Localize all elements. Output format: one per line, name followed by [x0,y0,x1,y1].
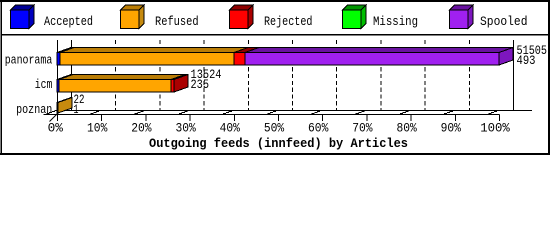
x-axis depth tick 90% [441,111,455,115]
gridline 50% (dashed, back plane) [292,40,294,110]
svg-text:80%: 80% [396,122,417,136]
bar panorama [57,48,513,66]
x-axis depth tick 50% [265,111,279,115]
x-axis depth tick 20% [132,111,146,115]
bar icm segment orange: front face [59,80,171,93]
x-axis depth tick 100% [486,111,500,115]
gridline 60% (dashed, back plane) [336,40,338,110]
svg-text:poznan: poznan [16,103,52,117]
svg-text:493: 493 [517,54,536,68]
x-axis tick 20% [145,115,147,122]
bar panorama segment red: top face [234,48,259,53]
outer border frame right [548,0,550,155]
x-axis front line [44,114,500,116]
svg-text:1: 1 [74,103,79,117]
svg-text:235: 235 [191,78,210,92]
x-axis depth tick 40% [220,111,234,115]
outer border frame left [1,0,2,155]
bar poznan segment orange: top face [57,98,72,103]
bar icm segment blue: top face [57,75,73,80]
gridline 90% (dashed, back plane) [468,40,470,110]
outer border frame top [0,0,550,2]
svg-text:0%: 0% [48,122,64,136]
x-axis tick 90% [454,115,456,122]
bar icm segment red: top face [171,75,188,80]
y-axis vertical line [57,40,59,121]
svg-text:icm: icm [35,78,53,92]
bar panorama segment orange: top face [60,48,248,53]
legend cube Missing [343,5,367,29]
legend cube Accepted [11,5,35,29]
x-axis origin depth diagonal [50,114,58,122]
svg-text:panorama: panorama [5,54,53,68]
svg-text:Missing: Missing [373,15,418,29]
svg-text:90%: 90% [441,122,462,136]
x-axis tick 100% [499,115,501,122]
bar panorama segment red: front face [234,53,245,66]
bar panorama segment purple: front face [245,53,499,66]
bar icm segment red: front face [171,80,174,93]
gridline 40% (dashed, back plane) [247,40,249,110]
bar poznan [57,98,72,114]
x-axis depth tick 10% [88,111,102,115]
svg-text:Refused: Refused [155,15,199,29]
svg-text:Outgoing feeds (innfeed) by Ar: Outgoing feeds (innfeed) by Articles [149,137,408,151]
svg-text:Rejected: Rejected [264,15,313,29]
bar panorama right end cap [499,48,513,66]
gridline 100% (solid, back plane) [513,40,515,110]
x-axis tick 70% [366,115,368,122]
x-axis tick 60% [322,115,324,122]
bar panorama segment orange: front face [60,53,234,66]
bar icm segment blue: front face [57,80,59,93]
legend separator line [1,34,549,36]
x-axis depth tick 80% [397,111,411,115]
bar panorama segment blue: top face [57,48,74,53]
bar poznan segment orange: front face [57,103,58,114]
svg-text:50%: 50% [264,122,285,136]
x-axis tick 0% [57,115,59,122]
x-axis depth tick 60% [309,111,323,115]
bar icm [57,75,188,93]
x-axis depth tick 30% [176,111,190,115]
svg-text:100%: 100% [480,122,510,136]
x-axis tick 40% [233,115,235,122]
svg-text:30%: 30% [175,122,196,136]
gridline 10% (dashed, back plane) [115,40,117,110]
legend cube Spooled [450,5,474,29]
x-axis tick 50% [278,115,280,122]
gridline 20% (dashed, back plane) [159,40,161,110]
x-axis depth tick 0% [44,111,58,115]
x-axis depth tick 70% [353,111,367,115]
legend cube Rejected [230,5,254,29]
svg-text:Accepted: Accepted [44,15,93,29]
x-axis back line [57,110,532,112]
x-axis tick 10% [101,115,103,122]
gridline 70% (dashed, back plane) [380,40,382,110]
bar icm right end cap [174,75,188,93]
gridline 0% (solid, back plane) [71,40,73,110]
svg-text:Spooled: Spooled [480,15,528,29]
svg-text:60%: 60% [308,122,329,136]
svg-text:10%: 10% [87,122,108,136]
gridline 80% (dashed, back plane) [424,40,426,110]
svg-text:70%: 70% [352,122,373,136]
x-axis tick 80% [410,115,412,122]
bar poznan right end cap [58,98,72,114]
svg-text:20%: 20% [131,122,152,136]
legend cube Refused [121,5,145,29]
svg-text:40%: 40% [220,122,241,136]
bar icm segment orange: top face [59,75,185,80]
bar panorama segment purple: top face [245,48,513,53]
bar panorama segment blue: front face [57,53,60,66]
gridline 30% (dashed, back plane) [203,40,205,110]
outer border frame bottom [0,153,550,155]
x-axis tick 30% [189,115,191,122]
